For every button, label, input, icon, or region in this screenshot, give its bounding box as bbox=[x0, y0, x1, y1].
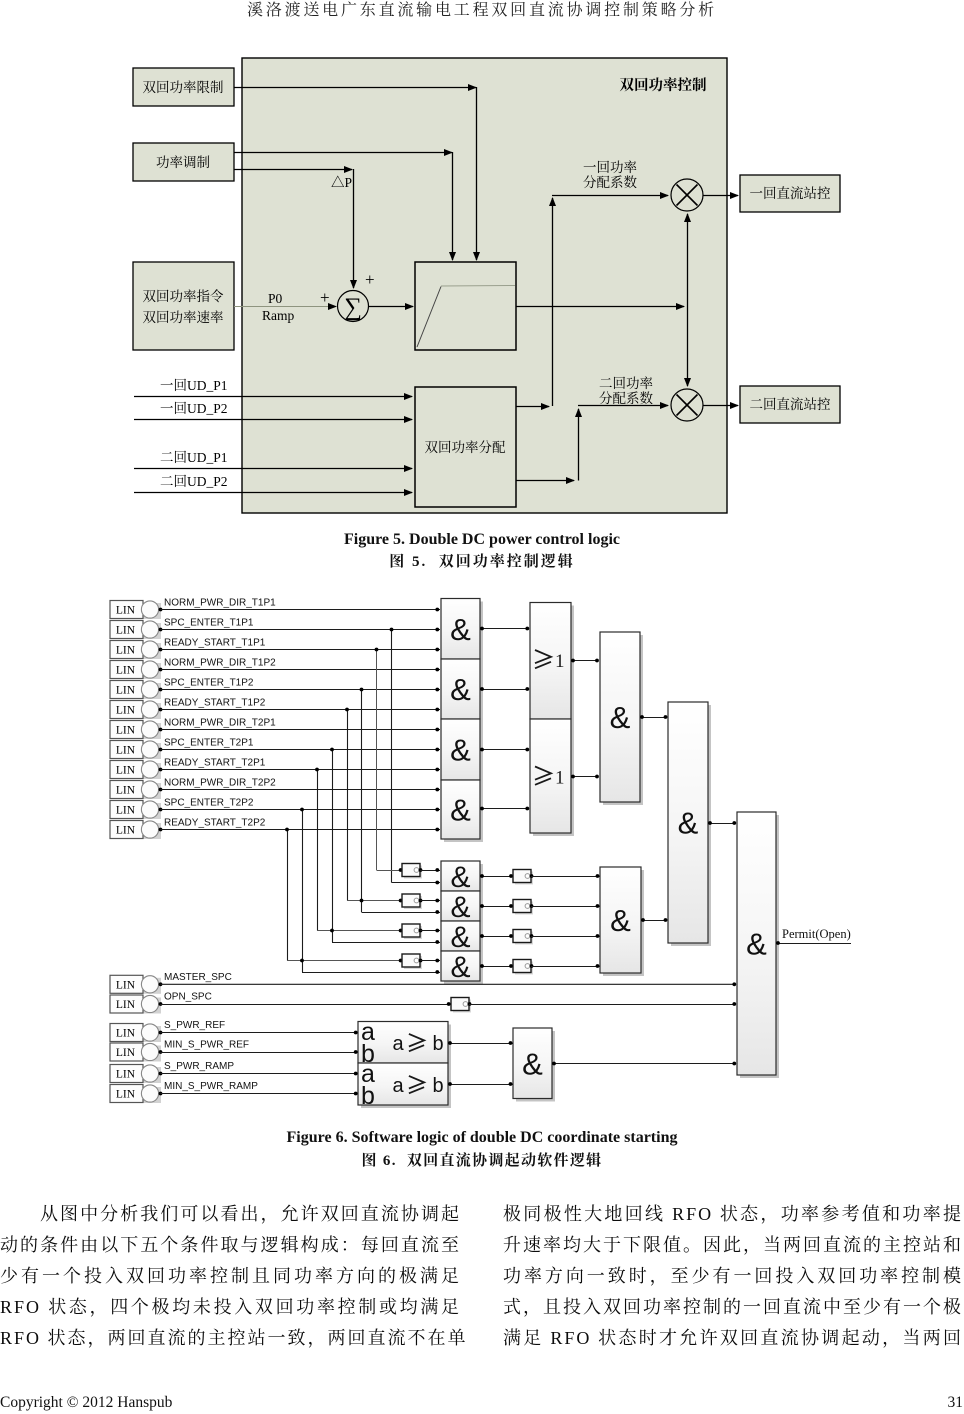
wire: AND out to OR in bbox=[480, 749, 528, 751]
block: 二回直流站控 bbox=[740, 386, 840, 423]
block: 双回功率控制 outer frame bbox=[242, 58, 727, 513]
multiplier X1 bbox=[671, 179, 703, 211]
inverter row 2 bbox=[347, 900, 402, 902]
svg-text:分配系数: 分配系数 bbox=[599, 390, 653, 406]
svg-text:一回直流站控: 一回直流站控 bbox=[750, 185, 831, 201]
AND gate L4 bbox=[444, 954, 483, 984]
svg-text:LIN: LIN bbox=[116, 979, 136, 991]
wire/input 一回UD_P1 bbox=[134, 396, 412, 398]
svg-text:双回功率指令: 双回功率指令 bbox=[143, 288, 224, 304]
wire: tap READY_START_T2P2 down bbox=[287, 830, 289, 961]
svg-text:LIN: LIN bbox=[116, 825, 136, 837]
wire: Permit(Open) output bbox=[776, 943, 851, 945]
AND gate L2 bbox=[444, 894, 483, 924]
svg-text:1: 1 bbox=[555, 651, 565, 672]
AND gate F (Permit) bbox=[740, 815, 779, 1078]
svg-text:S_PWR_RAMP: S_PWR_RAMP bbox=[164, 1061, 234, 1072]
svg-text:二回功率: 二回功率 bbox=[599, 376, 653, 391]
AND gate L1 bbox=[444, 864, 483, 894]
svg-text:双回功率速率: 双回功率速率 bbox=[143, 309, 224, 325]
svg-text:LIN: LIN bbox=[116, 1047, 136, 1059]
svg-text:LIN: LIN bbox=[116, 625, 136, 637]
inverter row 1 bbox=[377, 870, 403, 872]
wire: SPC to AND row 4 bbox=[302, 972, 440, 974]
LIN input NORM_PWR_DIR_T2P1 bbox=[110, 721, 162, 740]
svg-text:&: & bbox=[610, 903, 631, 938]
svg-text:LIN: LIN bbox=[116, 1089, 136, 1101]
wire: SPC to AND row 2 bbox=[362, 912, 441, 914]
svg-text:READY_START_T2P2: READY_START_T2P2 bbox=[164, 818, 266, 829]
AND gate G4 bbox=[444, 783, 483, 842]
wire: SPC to AND row 1 bbox=[392, 882, 441, 884]
svg-text:S_PWR_REF: S_PWR_REF bbox=[164, 1020, 225, 1031]
svg-text:&: & bbox=[450, 951, 470, 984]
wire/input 一回UD_P2 bbox=[134, 419, 412, 421]
svg-text:&: & bbox=[450, 733, 471, 768]
multiplier X2 bbox=[671, 389, 703, 421]
wire: 双回功率限制 to ramp input bbox=[234, 87, 476, 89]
svg-text:a: a bbox=[392, 1033, 404, 1055]
OR gate O2 bbox=[533, 722, 574, 836]
svg-text:&: & bbox=[450, 672, 471, 707]
wire: tap READY_START_T2P1 down bbox=[317, 770, 319, 931]
LIN input READY_START_T1P1 bbox=[110, 641, 162, 660]
wire: 功率调制 ΔP to summer bbox=[234, 169, 352, 171]
LIN input READY_START_T2P1 bbox=[110, 761, 162, 780]
wire: tap SPC_ENTER_T1P2 down bbox=[361, 690, 363, 913]
svg-text:MIN_S_PWR_REF: MIN_S_PWR_REF bbox=[164, 1040, 249, 1051]
summer Σ bbox=[338, 291, 369, 322]
wire: O1 out to M1 bbox=[571, 660, 598, 662]
LIN input S_PWR_RAMP bbox=[110, 1065, 162, 1084]
AND gate M1 bbox=[603, 635, 643, 805]
svg-text:LIN: LIN bbox=[116, 1069, 136, 1081]
svg-text:READY_START_T1P2: READY_START_T1P2 bbox=[164, 698, 266, 709]
svg-text:SPC_ENTER_T2P1: SPC_ENTER_T2P1 bbox=[164, 738, 254, 749]
LIN input MIN_S_PWR_REF bbox=[110, 1043, 162, 1062]
wire: X1 to 一回直流站控 bbox=[703, 195, 738, 197]
AND gate B1 bbox=[516, 1031, 555, 1102]
wire: AND out to OR in bbox=[480, 628, 528, 630]
svg-text:NORM_PWR_DIR_T1P2: NORM_PWR_DIR_T1P2 bbox=[164, 658, 276, 669]
svg-text:功率调制: 功率调制 bbox=[156, 155, 210, 170]
svg-text:b: b bbox=[361, 1082, 375, 1110]
svg-text:+: + bbox=[320, 288, 330, 307]
svg-text:LIN: LIN bbox=[116, 805, 136, 817]
wire: SPC to AND row 3 bbox=[332, 942, 440, 944]
svg-text:&: & bbox=[746, 927, 767, 962]
block: 功率调制 bbox=[133, 143, 234, 181]
svg-text:一回UD_P2: 一回UD_P2 bbox=[160, 401, 228, 416]
wire: X2 to 二回直流站控 bbox=[703, 405, 738, 407]
svg-text:LIN: LIN bbox=[116, 605, 136, 617]
svg-text:双回功率控制: 双回功率控制 bbox=[620, 76, 707, 94]
svg-text:LIN: LIN bbox=[116, 705, 136, 717]
AND gate M2 bbox=[603, 870, 644, 976]
LIN input S_PWR_REF bbox=[110, 1024, 162, 1043]
inverter row 3 bbox=[317, 930, 402, 932]
svg-text:MASTER_SPC: MASTER_SPC bbox=[164, 972, 232, 983]
comparator C1 a>=b bbox=[361, 1025, 451, 1067]
wire: tap SPC_ENTER_T1P1 down bbox=[391, 630, 393, 883]
LIN input NORM_PWR_DIR_T1P1 bbox=[110, 601, 162, 620]
OR gate O1 bbox=[533, 606, 574, 723]
svg-text:SPC_ENTER_T2P2: SPC_ENTER_T2P2 bbox=[164, 798, 254, 809]
LIN input MASTER_SPC bbox=[110, 975, 162, 994]
inverter row 4 bbox=[287, 960, 402, 962]
block: 双回功率分配 bbox=[415, 387, 516, 507]
LIN input OPN_SPC bbox=[110, 995, 162, 1014]
LIN input MIN_S_PWR_RAMP bbox=[110, 1085, 162, 1104]
svg-text:+: + bbox=[365, 270, 375, 289]
svg-text:Permit(Open): Permit(Open) bbox=[782, 927, 851, 941]
svg-text:双回功率分配: 双回功率分配 bbox=[425, 440, 506, 455]
wire: 功率调制 to ramp input bbox=[234, 152, 452, 154]
wire: 分配 coef1 to X1 bbox=[516, 406, 549, 408]
svg-text:∑: ∑ bbox=[344, 294, 362, 321]
LIN input SPC_ENTER_T1P1 bbox=[110, 621, 162, 640]
AND gate G1 bbox=[444, 602, 483, 663]
wire: C2 out to B1 bbox=[448, 1084, 513, 1086]
svg-text:Ramp: Ramp bbox=[262, 308, 294, 323]
wire/input 二回UD_P2 bbox=[134, 492, 412, 494]
comparator C2 a>=b bbox=[361, 1066, 451, 1108]
svg-text:&: & bbox=[610, 700, 631, 735]
svg-text:△P: △P bbox=[331, 175, 352, 190]
wire: B1 out to F bbox=[552, 1063, 735, 1065]
svg-text:&: & bbox=[450, 891, 470, 924]
svg-text:SPC_ENTER_T1P2: SPC_ENTER_T1P2 bbox=[164, 678, 254, 689]
svg-text:LIN: LIN bbox=[116, 665, 136, 677]
svg-text:&: & bbox=[450, 861, 470, 894]
svg-text:SPC_ENTER_T1P1: SPC_ENTER_T1P1 bbox=[164, 618, 254, 629]
svg-text:OPN_SPC: OPN_SPC bbox=[164, 992, 212, 1003]
negation box OPN_SPC bbox=[453, 1000, 471, 1013]
wire: tap READY_START_T1P1 down bbox=[376, 650, 378, 871]
wire: tap SPC_ENTER_T2P2 down bbox=[302, 810, 304, 973]
svg-text:b: b bbox=[432, 1075, 443, 1097]
svg-text:LIN: LIN bbox=[116, 685, 136, 697]
wire: 分配 coef2 to X2 bbox=[516, 480, 574, 482]
wire: ramp output to multipliers bbox=[516, 306, 684, 308]
svg-text:READY_START_T1P1: READY_START_T1P1 bbox=[164, 638, 266, 649]
svg-text:LIN: LIN bbox=[116, 725, 136, 737]
block: 双回功率限制 bbox=[133, 68, 234, 106]
svg-text:LIN: LIN bbox=[116, 785, 136, 797]
AND gate G2 bbox=[444, 662, 483, 722]
LIN input NORM_PWR_DIR_T2P2 bbox=[110, 781, 162, 800]
wire: M2 out to T1 bbox=[641, 920, 666, 922]
svg-text:双回功率限制: 双回功率限制 bbox=[143, 80, 224, 95]
svg-text:LIN: LIN bbox=[116, 765, 136, 777]
svg-text:&: & bbox=[522, 1046, 543, 1081]
svg-text:LIN: LIN bbox=[116, 999, 136, 1011]
svg-text:一回UD_P1: 一回UD_P1 bbox=[160, 378, 228, 393]
wire: T1 out to F bbox=[708, 823, 735, 825]
block: 双回功率指令/双回功率速率 bbox=[133, 262, 234, 350]
LIN input SPC_ENTER_T1P2 bbox=[110, 681, 162, 700]
svg-text:二回直流站控: 二回直流站控 bbox=[750, 396, 831, 412]
svg-text:MIN_S_PWR_RAMP: MIN_S_PWR_RAMP bbox=[164, 1081, 258, 1092]
svg-text:P0: P0 bbox=[268, 291, 283, 306]
AND gate T1 bbox=[671, 705, 711, 946]
svg-text:a: a bbox=[392, 1075, 404, 1097]
svg-text:NORM_PWR_DIR_T1P1: NORM_PWR_DIR_T1P1 bbox=[164, 598, 276, 609]
svg-text:&: & bbox=[450, 793, 471, 828]
LIN input READY_START_T1P2 bbox=[110, 701, 162, 720]
svg-text:&: & bbox=[678, 806, 699, 841]
svg-text:一回功率: 一回功率 bbox=[583, 160, 637, 175]
block: 一回直流站控 bbox=[740, 175, 840, 212]
LIN input NORM_PWR_DIR_T1P2 bbox=[110, 661, 162, 680]
wire: AND out to OR in bbox=[480, 689, 528, 691]
svg-text:b: b bbox=[432, 1033, 443, 1055]
svg-text:READY_START_T2P1: READY_START_T2P1 bbox=[164, 758, 266, 769]
post negation box row 2 bbox=[480, 906, 513, 908]
svg-text:二回UD_P1: 二回UD_P1 bbox=[160, 450, 228, 465]
svg-text:LIN: LIN bbox=[116, 1028, 136, 1040]
LIN input SPC_ENTER_T2P1 bbox=[110, 741, 162, 760]
wire: summer to ramp bbox=[369, 306, 414, 308]
wire: O2 out to M1 bbox=[571, 776, 598, 778]
block: ramp limiter bbox=[415, 262, 516, 350]
svg-text:LIN: LIN bbox=[116, 645, 136, 657]
wire: 指令 to summer bbox=[234, 306, 336, 308]
LIN input READY_START_T2P2 bbox=[110, 821, 162, 840]
svg-text:二回UD_P2: 二回UD_P2 bbox=[160, 474, 228, 489]
LIN input SPC_ENTER_T2P2 bbox=[110, 801, 162, 820]
svg-text:&: & bbox=[450, 612, 471, 647]
post negation box row 3 bbox=[480, 936, 513, 938]
wire: tap READY_START_T1P2 down bbox=[347, 710, 349, 901]
svg-text:&: & bbox=[450, 921, 470, 954]
svg-text:LIN: LIN bbox=[116, 745, 136, 757]
svg-text:分配系数: 分配系数 bbox=[583, 174, 637, 190]
wire: C1 out to B1 bbox=[448, 1043, 513, 1045]
svg-text:NORM_PWR_DIR_T2P1: NORM_PWR_DIR_T2P1 bbox=[164, 718, 276, 729]
AND gate G3 bbox=[444, 722, 483, 783]
post negation box row 4 bbox=[480, 966, 513, 968]
AND gate L3 bbox=[444, 924, 483, 954]
wire: AND out to OR in bbox=[480, 808, 528, 810]
post negation box row 1 bbox=[480, 876, 513, 878]
svg-text:1: 1 bbox=[555, 768, 565, 789]
wire: tap SPC_ENTER_T2P1 down bbox=[332, 750, 334, 943]
svg-text:NORM_PWR_DIR_T2P2: NORM_PWR_DIR_T2P2 bbox=[164, 778, 276, 789]
wire: M1 out to T1 bbox=[640, 717, 666, 719]
wire/input 二回UD_P1 bbox=[134, 468, 412, 470]
